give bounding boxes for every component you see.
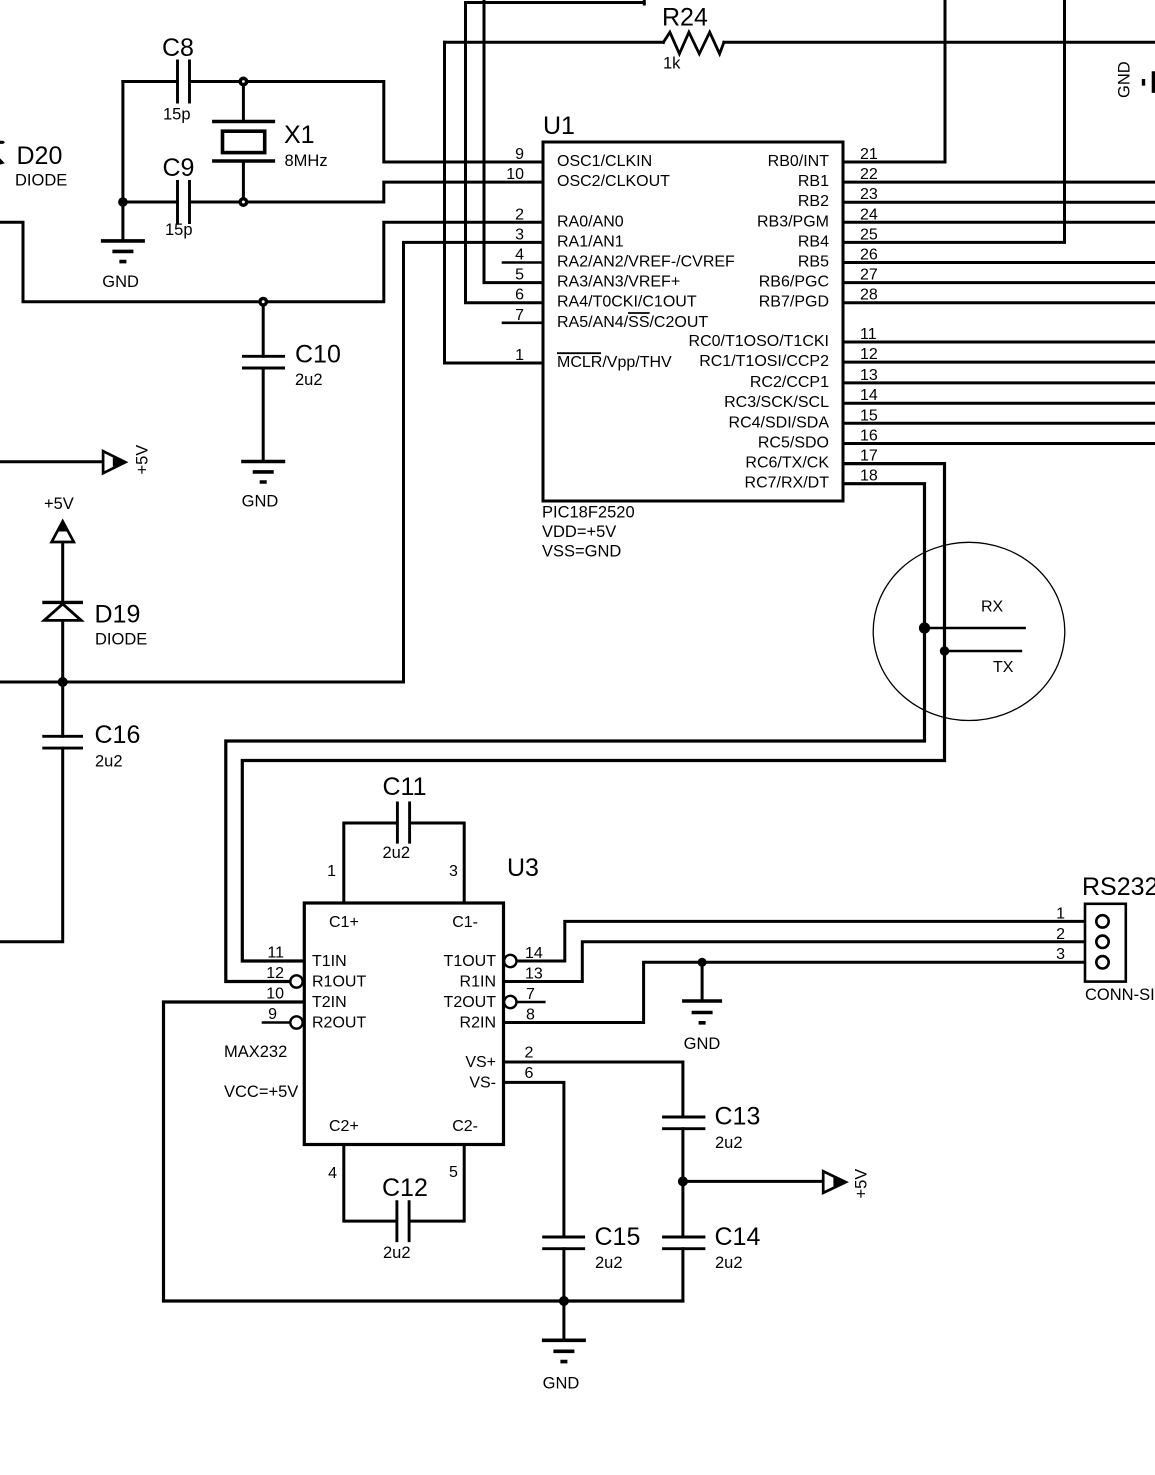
junction node RS232 GND	[698, 958, 707, 967]
svg-text:4: 4	[515, 247, 524, 264]
svg-text:VS+: VS+	[465, 1054, 496, 1071]
diode D19	[42, 602, 83, 620]
svg-text:15: 15	[860, 407, 878, 424]
capacitor C11 plates	[397, 802, 409, 844]
svg-text:2u2: 2u2	[715, 1254, 743, 1272]
wire RB0 pin21 to top edge	[843, 0, 945, 162]
U1 left pin numbers	[506, 146, 524, 364]
svg-text:11: 11	[267, 945, 284, 962]
junction node C10 top	[258, 297, 268, 307]
capacitor C9 plates	[178, 180, 190, 224]
svg-text:3: 3	[1056, 946, 1065, 963]
capacitor C14 plates	[662, 1237, 705, 1249]
svg-text:3: 3	[449, 863, 458, 880]
U3 pin bubble R2OUT	[290, 1016, 302, 1028]
wire +5V arrow bottom	[683, 1180, 834, 1183]
wire RC6 pin17 TX net	[242, 464, 944, 961]
svg-text:9: 9	[268, 1006, 277, 1023]
wire RB2 pin23	[843, 201, 1155, 204]
wire RA1 net to D19 junction	[0, 242, 543, 682]
svg-text:RA4/T0CKI/C1OUT: RA4/T0CKI/C1OUT	[557, 294, 697, 311]
wire R24 right segment to right edge	[724, 41, 1155, 44]
ground symbol below C8 C9	[101, 241, 145, 262]
junction node D19 C16	[58, 677, 68, 687]
svg-text:13: 13	[860, 367, 878, 384]
svg-text:RB2: RB2	[798, 193, 829, 210]
wire top net RA4 to top edge	[466, 0, 645, 303]
wire left vertical C8-C9-GND	[121, 82, 124, 241]
svg-text:1: 1	[1056, 905, 1065, 922]
svg-text:TX: TX	[993, 659, 1014, 676]
wire C8 OSC1 net	[123, 82, 543, 163]
U3 pin bubble T1OUT	[504, 955, 516, 967]
junction node +5V C13 C14	[678, 1176, 688, 1186]
wire X1 bottom stub	[242, 161, 245, 202]
svg-text:+5V: +5V	[134, 445, 152, 475]
svg-text:3: 3	[515, 226, 524, 243]
svg-text:RA3/AN3/VREF+: RA3/AN3/VREF+	[557, 274, 680, 291]
svg-text:2: 2	[1056, 926, 1065, 943]
svg-text:12: 12	[860, 346, 878, 363]
svg-text:RB1: RB1	[798, 173, 829, 190]
svg-text:11: 11	[860, 326, 877, 343]
ground symbol near RS232	[682, 1001, 722, 1023]
svg-text:PIC18F2520: PIC18F2520	[542, 504, 635, 522]
svg-text:D19: D19	[95, 601, 141, 629]
svg-text:8MHz: 8MHz	[285, 152, 328, 170]
RS232 pin numbers	[1056, 905, 1065, 963]
IC U3 MAX232 box	[304, 903, 503, 1145]
svg-text:R1OUT: R1OUT	[312, 974, 366, 991]
svg-text:R1IN: R1IN	[460, 974, 496, 991]
wire RB7 pin28	[843, 301, 1155, 304]
svg-text:RA1/AN1: RA1/AN1	[557, 233, 624, 250]
junction node RX	[919, 622, 930, 633]
svg-text:23: 23	[860, 186, 878, 203]
svg-text:26: 26	[860, 247, 878, 264]
junction node TX	[940, 646, 949, 655]
svg-text:U3: U3	[507, 854, 539, 882]
svg-text:T1OUT: T1OUT	[444, 953, 497, 970]
svg-text:2: 2	[525, 1045, 534, 1062]
svg-text:8: 8	[526, 1007, 535, 1024]
wire RX stub	[925, 627, 1025, 630]
svg-text:RC6/TX/CK: RC6/TX/CK	[745, 455, 829, 472]
capacitor C15 plates	[542, 1237, 585, 1249]
svg-text:6: 6	[525, 1065, 534, 1082]
wire +5V arrow left	[0, 460, 114, 463]
svg-text:R24: R24	[662, 4, 708, 32]
power +5V arrow bottom right	[823, 1171, 846, 1193]
wire C10 stubs	[262, 302, 265, 462]
U1 pin name overlines	[557, 313, 650, 353]
svg-text:RC3/SCK/SCL: RC3/SCK/SCL	[724, 394, 829, 411]
U3 pin names	[312, 914, 366, 1135]
svg-text:VDD=+5V: VDD=+5V	[542, 523, 616, 541]
svg-text:RA5/AN4/SS/C2OUT: RA5/AN4/SS/C2OUT	[557, 314, 708, 331]
svg-text:GND: GND	[1116, 61, 1134, 98]
svg-text:C16: C16	[95, 721, 141, 749]
U3 pin numbers	[266, 863, 337, 1182]
capacitor C16 plates	[42, 736, 83, 748]
svg-text:RB4: RB4	[798, 233, 829, 250]
svg-text:C15: C15	[595, 1223, 641, 1251]
svg-text:T2OUT: T2OUT	[444, 994, 497, 1011]
svg-text:7: 7	[526, 986, 535, 1003]
wire RB6 pin27	[843, 281, 1155, 284]
svg-text:15p: 15p	[165, 221, 193, 239]
wire RB3 pin24	[843, 221, 1155, 224]
svg-text:DIODE: DIODE	[95, 631, 147, 649]
svg-text:RB5: RB5	[798, 254, 829, 271]
connector RS232 pin circles	[1096, 915, 1108, 968]
svg-text:C8: C8	[162, 34, 194, 62]
U1 right pin names	[689, 153, 830, 492]
svg-text:RX: RX	[981, 599, 1004, 616]
IC U1 PIC18F2520 box	[543, 142, 843, 501]
wire T2OUT stub	[517, 1001, 544, 1004]
svg-text:RC7/RX/DT: RC7/RX/DT	[745, 475, 830, 492]
svg-text:2u2: 2u2	[595, 1254, 623, 1272]
svg-text:C11: C11	[383, 773, 427, 801]
svg-text:24: 24	[860, 206, 878, 223]
svg-text:10: 10	[266, 986, 284, 1003]
wire MCLR net R24 left	[445, 42, 544, 363]
svg-text:2u2: 2u2	[95, 753, 123, 771]
svg-text:CONN-SIL: CONN-SIL	[1085, 986, 1155, 1004]
wire C9 OSC2 net	[123, 182, 543, 202]
svg-text:U1: U1	[543, 112, 575, 140]
svg-text:RC2/CCP1: RC2/CCP1	[750, 374, 829, 391]
svg-text:15p: 15p	[163, 106, 191, 124]
diode D20 tip at left edge	[0, 141, 5, 144]
wire VS- net through C15	[504, 1082, 564, 1340]
svg-text:C1+: C1+	[329, 914, 359, 931]
svg-text:RC0/T1OSO/T1CKI: RC0/T1OSO/T1CKI	[689, 333, 829, 350]
svg-text:22: 22	[860, 166, 878, 183]
svg-text:C10: C10	[295, 341, 341, 369]
crystal X1	[212, 122, 275, 162]
wire D19 vertical chain	[0, 530, 63, 942]
svg-text:MAX232: MAX232	[224, 1043, 287, 1061]
svg-text:RC1/T1OSI/CCP2: RC1/T1OSI/CCP2	[699, 353, 829, 370]
svg-text:1k: 1k	[663, 55, 681, 73]
power +5V arrow above D19	[52, 521, 74, 542]
svg-text:OSC1/CLKIN: OSC1/CLKIN	[557, 153, 652, 170]
junction node X1 bottom	[238, 197, 248, 207]
svg-text:RB7/PGD: RB7/PGD	[759, 294, 829, 311]
svg-text:VS-: VS-	[469, 1075, 496, 1092]
wire RA5 pin7 stub	[503, 321, 543, 324]
wire RA0 net from left edge	[0, 222, 543, 301]
svg-text:2u2: 2u2	[295, 371, 323, 389]
svg-text:RS232: RS232	[1082, 873, 1155, 901]
wire C12 loop pins 4 5	[344, 1145, 464, 1222]
svg-text:C1-: C1-	[452, 914, 478, 931]
wire RC4 pin15	[843, 422, 1155, 425]
svg-text:T2IN: T2IN	[312, 994, 347, 1011]
svg-text:RB3/PGM: RB3/PGM	[757, 213, 829, 230]
wire T1OUT to RS232 pin1	[517, 921, 1085, 961]
junction node C9 GND	[118, 197, 128, 207]
wire RC3 pin14	[843, 402, 1155, 405]
U3 pin bubble R1OUT	[290, 975, 302, 987]
svg-text:12: 12	[266, 965, 284, 982]
wire RC7 pin18 RX net	[226, 484, 925, 982]
wire R1IN to RS232 pin2	[504, 942, 1086, 982]
svg-text:C2-: C2-	[452, 1118, 478, 1135]
svg-text:6: 6	[515, 287, 524, 304]
resistor R24	[663, 32, 724, 54]
capacitor C12 plates	[397, 1200, 409, 1242]
wire RC5 pin16	[843, 442, 1155, 445]
svg-text:17: 17	[860, 448, 878, 465]
junction node X1 top	[238, 77, 248, 87]
svg-text:C12: C12	[382, 1174, 428, 1202]
svg-text:18: 18	[860, 468, 878, 485]
svg-text:C14: C14	[715, 1223, 761, 1251]
ground symbol rotated at top right edge	[1144, 71, 1154, 93]
svg-text:+5V: +5V	[44, 495, 74, 513]
svg-text:C9: C9	[163, 154, 195, 182]
wire RB1 pin22	[843, 181, 1155, 184]
svg-text:25: 25	[860, 226, 878, 243]
svg-text:MCLR/Vpp/THV: MCLR/Vpp/THV	[557, 354, 672, 371]
svg-text:VCC=+5V: VCC=+5V	[224, 1083, 298, 1101]
svg-text:R2OUT: R2OUT	[312, 1015, 366, 1032]
svg-text:RB6/PGC: RB6/PGC	[759, 274, 829, 291]
wire T2IN net bottom rail	[164, 1002, 683, 1301]
wire RC0 pin11	[843, 341, 1155, 344]
svg-text:RC5/SDO: RC5/SDO	[758, 435, 829, 452]
svg-text:1: 1	[327, 863, 336, 880]
wire C11 loop pins 1 3	[344, 823, 464, 903]
svg-text:RC4/SDI/SDA: RC4/SDI/SDA	[729, 414, 830, 431]
U3 pin bubble T2OUT	[504, 996, 516, 1008]
svg-text:7: 7	[515, 307, 524, 324]
svg-text:+5V: +5V	[853, 1169, 871, 1199]
svg-text:1: 1	[515, 347, 524, 364]
svg-text:C2+: C2+	[329, 1118, 359, 1135]
power +5V arrow left	[103, 451, 125, 473]
svg-text:27: 27	[860, 267, 878, 284]
wire R24 horizontal left segment	[445, 41, 664, 44]
svg-text:13: 13	[525, 966, 543, 983]
svg-text:RA0/AN0: RA0/AN0	[557, 213, 624, 230]
capacitor C10 plates	[242, 356, 285, 368]
ground symbol bottom center	[542, 1340, 586, 1361]
wire TX stub	[945, 650, 1021, 653]
U1 right pin numbers	[860, 146, 878, 485]
svg-text:2u2: 2u2	[715, 1134, 743, 1152]
svg-text:T1IN: T1IN	[312, 953, 347, 970]
svg-text:5: 5	[449, 1164, 458, 1181]
wire RA2 pin4 stub	[503, 261, 543, 264]
svg-text:10: 10	[506, 166, 524, 183]
connector RS232 box	[1085, 904, 1126, 982]
svg-text:2u2: 2u2	[383, 1244, 411, 1262]
svg-text:16: 16	[860, 428, 878, 445]
wire VS+ net through C13 C14	[504, 1062, 683, 1301]
svg-text:14: 14	[860, 387, 878, 404]
svg-text:GND: GND	[102, 273, 139, 291]
svg-text:OSC2/CLKOUT: OSC2/CLKOUT	[557, 173, 670, 190]
svg-text:DIODE: DIODE	[15, 172, 67, 190]
wire RB5 pin26	[843, 261, 1155, 264]
svg-text:X1: X1	[284, 121, 315, 149]
capacitor C8 plates	[178, 60, 190, 104]
svg-text:GND: GND	[242, 493, 279, 511]
junction node C15 GND	[559, 1296, 569, 1306]
wire RC2 pin13	[843, 381, 1155, 384]
wire GND tap RS232	[701, 962, 704, 1001]
svg-text:28: 28	[860, 287, 878, 304]
wire RB4 pin25 to top edge	[843, 0, 1065, 242]
svg-text:9: 9	[515, 146, 524, 163]
svg-text:RB0/INT: RB0/INT	[768, 153, 830, 170]
svg-text:5: 5	[515, 267, 524, 284]
circle annotation RX TX	[873, 542, 1065, 720]
svg-text:21: 21	[860, 146, 878, 163]
wire R2OUT stub	[263, 1021, 290, 1024]
capacitor C13 plates	[662, 1117, 705, 1129]
svg-text:2: 2	[515, 206, 524, 223]
ground symbol below C10	[241, 462, 285, 483]
svg-text:4: 4	[328, 1165, 337, 1182]
svg-text:VSS=GND: VSS=GND	[542, 543, 621, 561]
wire RC1 pin12	[843, 361, 1155, 364]
svg-text:14: 14	[525, 945, 543, 962]
svg-text:GND: GND	[684, 1035, 721, 1053]
wire R2IN to RS232 pin3	[504, 962, 1086, 1022]
wire RA3 net to top edge	[484, 0, 543, 283]
svg-text:RA2/AN2/VREF-/CVREF: RA2/AN2/VREF-/CVREF	[557, 254, 735, 271]
svg-text:GND: GND	[543, 1375, 580, 1393]
svg-text:2u2: 2u2	[383, 844, 411, 862]
wire X1 top stub	[242, 82, 245, 122]
svg-text:C13: C13	[715, 1103, 761, 1131]
svg-text:D20: D20	[17, 142, 63, 170]
U1 left pin names	[557, 153, 735, 371]
svg-text:R2IN: R2IN	[460, 1015, 496, 1032]
